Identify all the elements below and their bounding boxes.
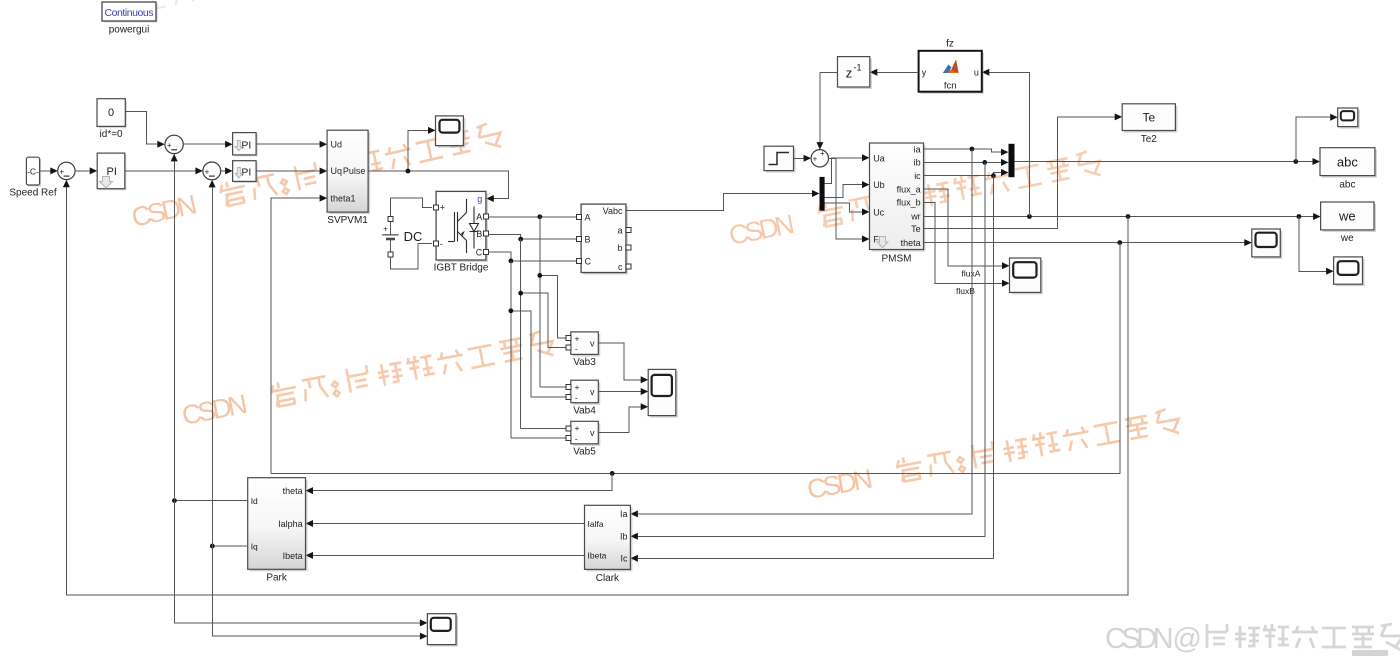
- wire ib to mux: [924, 161, 1003, 163]
- arrowhead into F: [862, 236, 870, 243]
- svg-text:DC: DC: [404, 229, 423, 244]
- abc display block: [1320, 148, 1377, 178]
- svg-text:fcn: fcn: [944, 81, 957, 92]
- arrowhead scope3 in1: [420, 619, 428, 626]
- watermark fragment top-left: [138, 0, 227, 14]
- junction Id node: [172, 498, 177, 503]
- svg-text:fluxA: fluxA: [962, 269, 981, 279]
- svg-text:-1: -1: [853, 63, 861, 73]
- wire wr branch down to scope7: [1299, 217, 1327, 272]
- scope7 bottom right: [1334, 257, 1365, 286]
- wire C tap down to Vab4- and Vab5-: [511, 261, 567, 438]
- scope4 flux scope: [1010, 258, 1043, 294]
- arrowhead into abc block: [1313, 158, 1321, 165]
- arrowhead into scope6: [1330, 114, 1338, 121]
- svg-text:ic: ic: [914, 171, 921, 181]
- Vabc measurement block: [581, 204, 628, 274]
- step block: [764, 146, 796, 172]
- svg-text:+: +: [820, 149, 825, 158]
- tiny grey mark bottom right: [1352, 650, 1388, 656]
- arrowhead into Park theta: [306, 487, 314, 494]
- wire z-1 down to sum4 top: [819, 72, 821, 143]
- Vabc port squares: [576, 214, 631, 269]
- arrowhead into sum3 bottom: [209, 180, 216, 188]
- scope1 pulse scope: [436, 116, 466, 148]
- svg-text:Ib: Ib: [620, 532, 628, 542]
- svg-text:Id: Id: [251, 496, 258, 506]
- svg-text:a: a: [617, 226, 622, 236]
- junction wr to fcn: [1027, 214, 1032, 219]
- svg-text:-: -: [575, 393, 578, 403]
- junction wr to scope7: [1297, 214, 1302, 219]
- svg-text:theta: theta: [283, 486, 303, 496]
- svg-text:-C-: -C-: [27, 167, 39, 177]
- wire PI2 to SVPVM1 Ud: [256, 143, 321, 145]
- svg-text:A: A: [476, 212, 482, 222]
- svg-text:-: -: [575, 343, 578, 353]
- we display block: [1321, 202, 1376, 232]
- junction ic tap: [991, 173, 996, 178]
- arrowhead into scope5: [1244, 239, 1252, 246]
- svg-text:theta1: theta1: [331, 193, 356, 203]
- arrowhead into Clark Ib: [630, 533, 638, 540]
- arrowhead into sum3: [195, 167, 203, 174]
- wire DC+ to IGBT +: [391, 198, 433, 217]
- scope5 theta scope: [1252, 229, 1283, 259]
- wire Vabc measurement to demux: [626, 194, 812, 211]
- svg-text:ib: ib: [914, 158, 921, 168]
- arrowhead into PI3: [225, 167, 233, 174]
- junction A tap corner: [537, 273, 542, 278]
- svg-text:g: g: [477, 194, 482, 204]
- sum junction speed (sum1): [58, 162, 75, 179]
- wire theta feedback down-left: [271, 243, 1120, 474]
- arrowhead into sum4 top: [816, 142, 823, 150]
- svg-text:we: we: [1338, 209, 1356, 224]
- junction phase C tap: [509, 259, 514, 264]
- svg-text:Uq: Uq: [331, 166, 343, 176]
- wire ic to mux: [924, 173, 1003, 176]
- wire branch up to scope6: [1296, 117, 1332, 161]
- svg-text:PMSM: PMSM: [882, 254, 912, 265]
- svg-text:CSDN @: CSDN @: [1105, 623, 1202, 655]
- svg-text:ia: ia: [914, 144, 921, 154]
- svg-text:Te2: Te2: [1141, 134, 1158, 145]
- arrowhead into sum1 bottom: [63, 180, 70, 188]
- svg-text:Ia: Ia: [620, 509, 628, 519]
- wire demux out1 to PMSM Ua: [825, 158, 864, 184]
- IGBT port squares: [433, 205, 488, 255]
- scope3 current scope: [427, 614, 458, 647]
- arrowhead into sum2 bottom: [171, 154, 178, 162]
- arrowhead into we block: [1313, 213, 1321, 220]
- wire theta feedback to SVPVM1 theta1: [271, 198, 321, 473]
- wire flux_b to scope: [924, 202, 1003, 283]
- PI q-axis controller PI3: [233, 161, 258, 183]
- wire wr output long: [924, 216, 1315, 218]
- arrowhead into Clark Ic: [630, 555, 638, 562]
- powergui block: [102, 2, 158, 23]
- arrowhead into Park Ialpha: [306, 520, 314, 527]
- watermark 1: [129, 121, 504, 233]
- wire 0 to sum2: [125, 112, 158, 145]
- svg-text:flux_b: flux_b: [897, 198, 921, 208]
- arrowhead into PI1: [90, 167, 98, 174]
- wire Clark Ialfa to Park Ialpha: [312, 523, 585, 525]
- svg-text:+: +: [59, 167, 64, 176]
- arrowhead into Ua: [862, 154, 870, 161]
- watermark 2: [179, 329, 556, 431]
- svg-text:v: v: [590, 428, 595, 438]
- wire PI1 to sum3: [125, 170, 197, 172]
- Park block: [248, 478, 308, 572]
- svg-text:Vab4: Vab4: [573, 406, 596, 417]
- Vab3 voltage measurement: [566, 332, 600, 357]
- wire Te output: [924, 117, 1116, 229]
- unit delay z-1 block: [838, 57, 872, 89]
- wire Pulse output: [368, 171, 508, 199]
- svg-text:Park: Park: [266, 573, 288, 584]
- wire Vab4 to scope2: [598, 391, 642, 393]
- Te display block: [1122, 104, 1177, 133]
- wire sum1 to PI1: [75, 170, 91, 172]
- arrowhead mux in2: [1001, 159, 1009, 166]
- Clark block: [585, 505, 633, 571]
- svg-text:we: we: [1340, 233, 1354, 244]
- SVPVM1 block: [327, 130, 370, 214]
- wire Clark Ibeta to Park Ibeta: [312, 554, 585, 556]
- svg-text:PI: PI: [241, 166, 251, 178]
- arrowhead into scope7: [1326, 268, 1334, 275]
- svg-text:powergui: powergui: [109, 25, 150, 36]
- svg-text:v: v: [590, 338, 595, 348]
- Vab5 voltage measurement: [566, 421, 600, 446]
- wire Park Iq output: [212, 545, 247, 547]
- svg-text:+: +: [575, 334, 580, 344]
- svg-text:+: +: [205, 167, 210, 176]
- svg-text:Clark: Clark: [596, 573, 620, 584]
- DC voltage source: [382, 217, 399, 257]
- sum junction id (sum2): [165, 135, 183, 153]
- svg-text:Ua: Ua: [873, 153, 885, 163]
- IGBT Bridge block: [436, 191, 488, 262]
- svg-text:abc: abc: [1337, 154, 1358, 169]
- wire step to sum4: [794, 157, 805, 159]
- svg-text:+: +: [575, 382, 580, 392]
- wire ia to mux: [924, 149, 1003, 152]
- junction theta tap: [1117, 240, 1122, 245]
- svg-text:Ibeta: Ibeta: [588, 551, 607, 561]
- svg-text:+: +: [813, 155, 818, 164]
- svg-text:wr: wr: [910, 212, 921, 222]
- svg-text:-: -: [575, 434, 578, 444]
- wire -C- to sum1: [40, 170, 52, 172]
- PMSM block: [870, 143, 926, 252]
- wire flux_a to scope: [924, 189, 1003, 266]
- junction phase B tap: [518, 237, 523, 242]
- wire ic feedback to Clark Ic: [637, 176, 994, 559]
- sum junction torque (sum4): [811, 149, 828, 167]
- scope2 voltage scope: [648, 369, 678, 417]
- arrowhead into fcn u: [982, 69, 990, 76]
- svg-text:y: y: [922, 67, 927, 77]
- svg-text:Ibeta: Ibeta: [283, 551, 303, 561]
- arrowhead into Uc: [862, 208, 870, 215]
- arrowhead into Uq: [320, 168, 328, 175]
- Vab4 voltage measurement: [566, 380, 600, 405]
- arrowhead into scope1: [428, 127, 436, 134]
- junction theta to park: [610, 471, 615, 476]
- svg-text:theta: theta: [901, 238, 921, 248]
- wire Iq down to scope3: [212, 546, 421, 636]
- wire fz y to z-1: [877, 71, 918, 73]
- junction phase A tap: [537, 214, 542, 219]
- wire Vab3 to scope2: [598, 343, 642, 380]
- arrowhead into demux: [812, 190, 820, 197]
- junction Iq node: [210, 544, 215, 549]
- svg-text:+: +: [575, 423, 580, 433]
- arrowhead mux in1: [1001, 149, 1009, 156]
- svg-text:Uc: Uc: [873, 207, 884, 217]
- wire DC- to IGBT -: [391, 244, 433, 270]
- arrowhead into IGBT g: [486, 195, 494, 202]
- svg-text:Ub: Ub: [873, 180, 885, 190]
- svg-text:IGBT Bridge: IGBT Bridge: [434, 263, 489, 274]
- wire phase C IGBT to Vabc: [488, 252, 576, 261]
- wire sum4 to PMSM F: [829, 158, 864, 239]
- junction abc to scope6: [1293, 159, 1298, 164]
- MATLAB logo: [943, 60, 959, 74]
- svg-text:B: B: [585, 235, 591, 245]
- wire theta branch to Park: [312, 473, 613, 490]
- svg-text:0: 0: [108, 107, 114, 119]
- svg-text:C: C: [585, 256, 592, 266]
- arrowhead into sum4: [804, 155, 812, 162]
- demux bar: [820, 177, 825, 211]
- svg-text:Ic: Ic: [620, 554, 628, 564]
- wire phase B IGBT to Vabc: [488, 234, 576, 239]
- wire B tap down to Vab3- and Vab5+: [521, 239, 567, 428]
- arrowhead into Park Ibeta: [306, 552, 314, 559]
- junction C tap corner: [509, 308, 514, 313]
- svg-text:Continuous: Continuous: [105, 7, 154, 19]
- wire PI3 to SVPVM1 Uq: [256, 170, 321, 172]
- watermark 3: [726, 149, 1103, 251]
- wire wr up to fcn u: [989, 72, 1029, 216]
- svg-text:+: +: [440, 202, 445, 212]
- arrowhead scope2 in3: [641, 403, 649, 410]
- arrowhead flux scope in1: [1002, 262, 1010, 269]
- wire z-1 output to corner: [820, 71, 837, 73]
- mux bar: [1009, 144, 1015, 177]
- svg-text:+: +: [167, 141, 172, 150]
- IGBT transistor icon: [448, 199, 467, 253]
- svg-text:id*=0: id*=0: [100, 129, 124, 140]
- wire Iq feedback up to sum3: [211, 186, 213, 546]
- svg-text:-: -: [440, 239, 443, 249]
- wire Park Id output: [174, 500, 247, 502]
- arrowhead flux scope in2: [1002, 280, 1010, 287]
- arrowhead into Clark Ia: [630, 510, 638, 517]
- wire sum2 to PI2: [183, 143, 226, 145]
- junction ib tap: [982, 160, 987, 165]
- svg-text:Te: Te: [1142, 111, 1155, 125]
- junction pulse node: [406, 169, 411, 174]
- PI d-axis controller PI2: [233, 133, 258, 157]
- svg-text:Ialpha: Ialpha: [278, 519, 303, 529]
- svg-text:v: v: [590, 387, 595, 397]
- svg-text:SVPVM1: SVPVM1: [327, 215, 368, 226]
- junction ia tap: [970, 147, 975, 152]
- svg-text:abc: abc: [1339, 180, 1355, 191]
- svg-text:Vab5: Vab5: [573, 447, 596, 458]
- arrowhead into Te block: [1115, 113, 1123, 120]
- wire Id feedback up to sum2: [173, 160, 175, 500]
- svg-text:z: z: [846, 66, 853, 81]
- arrowhead into z-1: [870, 69, 878, 76]
- svg-text:u: u: [974, 67, 979, 77]
- svg-text:Iq: Iq: [251, 541, 258, 551]
- svg-text:Speed Ref: Speed Ref: [9, 188, 56, 199]
- arrowhead scope3 in2: [420, 633, 428, 640]
- PI speed controller PI1: [97, 153, 126, 190]
- constant -C- Speed Ref: [26, 157, 41, 186]
- sum junction iq (sum3): [203, 162, 221, 180]
- scope6 top right: [1338, 108, 1360, 129]
- svg-text:C: C: [476, 248, 483, 258]
- wire sum3 to PI3: [221, 170, 227, 172]
- arrowhead into PI2: [225, 141, 233, 148]
- svg-text:Pulse: Pulse: [343, 166, 366, 176]
- wire demux out2 to PMSM Ub: [825, 185, 864, 198]
- svg-text:b: b: [617, 243, 622, 253]
- svg-text:A: A: [585, 212, 591, 222]
- arrowhead mux in3: [1001, 169, 1009, 176]
- wire mux to abc block: [1015, 161, 1314, 163]
- wire theta output: [924, 242, 1246, 244]
- svg-text:c: c: [618, 262, 623, 272]
- arrowhead into sum1: [50, 167, 58, 174]
- wire pulse branch to scope1: [408, 130, 429, 171]
- svg-text:B: B: [476, 229, 482, 239]
- svg-text:Ud: Ud: [331, 139, 343, 149]
- arrowhead into sum2: [157, 141, 165, 148]
- arrowhead into Ud: [320, 141, 328, 148]
- svg-text:flux_a: flux_a: [897, 184, 921, 194]
- fz MATLAB function block: [919, 51, 984, 94]
- wire phase A IGBT to Vabc: [488, 216, 576, 218]
- arrowhead into theta1: [320, 195, 328, 202]
- IGBT diode icon: [470, 207, 479, 249]
- svg-text:Vabc: Vabc: [603, 206, 623, 216]
- wire wr speed feedback return: [66, 186, 1128, 595]
- junction B tap corner: [518, 291, 523, 296]
- wire ia feedback to Clark Ia: [637, 149, 972, 514]
- junction wr to speed feedback: [1126, 214, 1131, 219]
- wire Id down to scope3: [174, 501, 421, 623]
- watermark 4: [805, 407, 1182, 505]
- wire ib feedback to Clark Ib: [637, 162, 985, 536]
- svg-text:Vab3: Vab3: [573, 357, 596, 368]
- wire Vab5 to scope2: [598, 407, 642, 433]
- svg-text:fz: fz: [946, 39, 954, 50]
- svg-text:Ialfa: Ialfa: [588, 519, 604, 529]
- wire A tap down to Vab3+ and Vab4+: [540, 217, 567, 387]
- svg-text:PI: PI: [241, 139, 251, 151]
- wire demux out3 to PMSM Uc: [825, 203, 864, 212]
- arrowhead into Ub: [862, 181, 870, 188]
- constant 0 (id*=0): [97, 99, 127, 128]
- csdn grey credit text: [1105, 623, 1400, 655]
- svg-text:+: +: [383, 225, 388, 234]
- arrowhead scope2 in1: [641, 376, 649, 383]
- arrowhead scope2 in2: [641, 388, 649, 395]
- svg-text:Te: Te: [911, 224, 921, 234]
